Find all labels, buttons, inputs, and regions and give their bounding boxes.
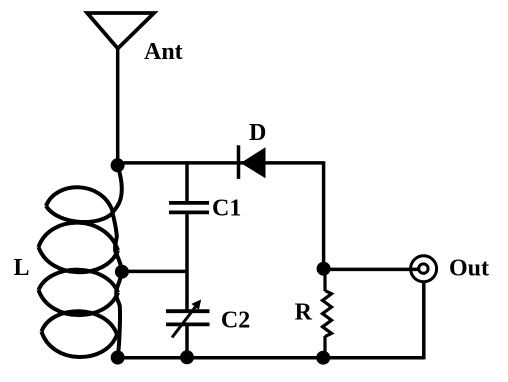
- wire antenna lead: [116, 47, 120, 165]
- wire coil tap horizontal: [122, 270, 187, 274]
- capacitor C2 arrow shaft: [172, 303, 199, 338]
- svg-text:Ant: Ant: [144, 39, 183, 65]
- antenna symbol: [87, 13, 154, 49]
- inductor L loop 1: [46, 187, 113, 222]
- wire output down: [422, 283, 426, 359]
- svg-text:C1: C1: [212, 196, 241, 222]
- node top junction dot: [111, 158, 125, 172]
- capacitor C1 top plate: [169, 201, 209, 205]
- wire right vertical: [322, 161, 326, 270]
- wire bottom horizontal: [116, 356, 424, 360]
- wire capacitor branch lower: [185, 325, 189, 358]
- capacitor C2 bottom plate: [166, 322, 210, 326]
- connector Out outer circle: [411, 256, 437, 282]
- inductor L loop 4: [42, 311, 118, 357]
- capacitor C1 bottom plate: [169, 210, 209, 214]
- wire resistor bottom lead: [323, 336, 326, 353]
- inductor L coil right-side strand: [113, 166, 122, 356]
- capacitor C2 top plate: [166, 309, 210, 313]
- diode D cathode bar: [237, 145, 241, 179]
- wire resistor top lead: [323, 269, 326, 291]
- node bottom right dot: [316, 351, 330, 365]
- node bottom middle dot: [180, 350, 194, 364]
- wire output horizontal: [324, 268, 419, 272]
- svg-text:D: D: [249, 120, 266, 146]
- wire top horizontal: [118, 161, 324, 165]
- wire capacitor branch upper: [185, 161, 189, 203]
- wire capacitor branch middle: [185, 213, 189, 311]
- node coil tap dot: [115, 265, 129, 279]
- node bottom left dot: [111, 351, 125, 365]
- inductor L loop 2: [39, 223, 119, 273]
- capacitor C2 arrowhead: [192, 300, 200, 309]
- svg-text:Out: Out: [449, 255, 489, 281]
- svg-text:L: L: [14, 255, 30, 281]
- resistor R zigzag: [323, 291, 332, 337]
- inductor L loop 3: [39, 270, 119, 315]
- connector Out inner circle: [419, 264, 428, 273]
- node resistor top dot: [317, 262, 331, 276]
- svg-text:R: R: [295, 300, 313, 326]
- svg-text:C2: C2: [221, 307, 250, 333]
- diode D triangle: [242, 148, 266, 177]
